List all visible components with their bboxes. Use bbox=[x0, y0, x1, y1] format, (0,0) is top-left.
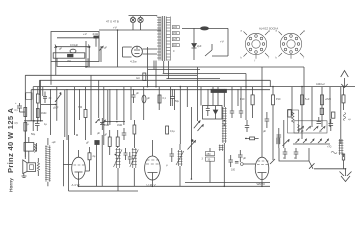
V1 cathode resistor bbox=[85, 147, 96, 171]
bus L2 y69.5 bbox=[148, 69, 200, 71]
fuse resistor 24 bbox=[83, 32, 99, 38]
dial lamp 1 bbox=[130, 16, 135, 30]
loop below mains box bbox=[57, 58, 88, 66]
diag arrow x285 bbox=[283, 139, 290, 146]
svg-text:50µ: 50µ bbox=[31, 133, 36, 136]
svg-text:+µF: +µF bbox=[52, 141, 57, 144]
svg-text:Horny: Horny bbox=[9, 178, 15, 192]
trimmer arrows osc bbox=[198, 125, 204, 132]
svg-text:+7Ω: +7Ω bbox=[327, 147, 332, 149]
svg-text:2µ: 2µ bbox=[93, 155, 96, 158]
svg-text:250: 250 bbox=[207, 153, 212, 156]
oscillator main winding bbox=[222, 89, 227, 186]
resistor x167 bbox=[166, 126, 176, 134]
junction row y120.8 bbox=[24, 120, 43, 122]
svg-text:k: k bbox=[241, 57, 243, 60]
svg-text:1µ: 1µ bbox=[26, 123, 29, 126]
winding x278 bbox=[276, 138, 281, 145]
tube socket EZ bbox=[276, 30, 306, 60]
left resistor R1 bbox=[24, 108, 27, 117]
fuse bottom right bbox=[331, 152, 345, 169]
drop from mains box left bbox=[56, 62, 89, 76]
svg-text:µF: µF bbox=[97, 132, 100, 135]
bus L6 y81.8 bbox=[40, 80, 271, 95]
primary feed wire bbox=[182, 27, 228, 29]
svg-text:µF: µF bbox=[263, 130, 266, 133]
diode on branch bbox=[192, 28, 202, 60]
resistor 5+0 bbox=[301, 95, 310, 105]
mid bottom small boxes 250 bbox=[202, 148, 215, 183]
svg-text:+V: +V bbox=[83, 32, 87, 36]
svg-text:µF: µF bbox=[147, 97, 150, 100]
rectifier tube 4Zw bbox=[130, 46, 142, 63]
small winding below osc box bbox=[219, 145, 224, 152]
svg-text:750: 750 bbox=[78, 106, 83, 109]
svg-text:0,1: 0,1 bbox=[163, 97, 167, 100]
oval cap in mains box bbox=[70, 49, 76, 53]
corner component box bbox=[26, 93, 32, 100]
svg-text:50µ: 50µ bbox=[175, 100, 180, 103]
svg-text:1MΩ: 1MΩ bbox=[41, 112, 46, 115]
left small cap bbox=[17, 103, 25, 112]
transformer taps bbox=[173, 26, 178, 53]
feedback resistor loop bbox=[288, 110, 299, 133]
bottom right wire bbox=[314, 168, 346, 170]
L1 right drop bbox=[303, 67, 305, 105]
speaker hum cap box bbox=[24, 137, 37, 163]
wire left of V1 bbox=[63, 135, 68, 191]
inner box resistor 7ohm bbox=[53, 53, 85, 63]
svg-text:µF: µF bbox=[104, 47, 107, 50]
left resistor R2 bbox=[24, 123, 27, 132]
svg-text:1MΩ: 1MΩ bbox=[104, 124, 109, 127]
mid verticals bbox=[43, 75, 108, 145]
antenna bbox=[316, 71, 348, 88]
V1 bottom lead bbox=[78, 179, 80, 186]
svg-text:0,1: 0,1 bbox=[15, 110, 19, 112]
tube V2 mixer bbox=[145, 140, 161, 187]
cap near x124 bbox=[122, 128, 127, 140]
transformer secondary top lead bbox=[156, 15, 158, 18]
transformer lead drops bbox=[148, 47, 169, 87]
caps x279 bbox=[277, 135, 282, 137]
svg-text:µ50F: µ50F bbox=[53, 107, 59, 110]
wire box right down bbox=[95, 38, 97, 47]
T1 bottom leads bbox=[118, 168, 134, 191]
tube socket AL4 bbox=[241, 30, 271, 63]
svg-text:f: f bbox=[269, 57, 270, 60]
cap right1 bbox=[317, 117, 322, 124]
bottom right box bbox=[279, 148, 309, 161]
cap 50u bbox=[31, 121, 40, 136]
main bus y86.6 bbox=[33, 87, 355, 131]
oscillator caps bbox=[230, 106, 249, 132]
bus L8 y89.3 bbox=[31, 89, 270, 91]
junction row y104.5 bbox=[41, 104, 56, 106]
rectifier wires bbox=[123, 47, 132, 57]
resistor x289 bbox=[288, 110, 291, 118]
svg-text:P10: P10 bbox=[276, 98, 281, 101]
resistor 750 bbox=[78, 87, 87, 140]
wire mains box to L1 bbox=[85, 41, 87, 67]
bus L4 y75.3 outer box top bbox=[25, 75, 197, 104]
left pair verticals bbox=[279, 120, 284, 148]
speaker bbox=[22, 160, 36, 178]
svg-text:µF: µF bbox=[86, 142, 89, 145]
fork wires bbox=[205, 44, 212, 56]
svg-text:2µF: 2µF bbox=[197, 44, 202, 48]
coil x346 bbox=[343, 113, 345, 121]
svg-text:1MΩ: 1MΩ bbox=[117, 124, 122, 127]
svg-text:µF: µF bbox=[243, 157, 246, 160]
cap below bbox=[263, 112, 269, 133]
tube V1 AF bbox=[63, 150, 85, 187]
svg-text:Prinz 40 W 125 A: Prinz 40 W 125 A bbox=[6, 107, 15, 173]
svg-text:µ: µ bbox=[166, 164, 168, 167]
bottom left corner wires bbox=[24, 131, 26, 159]
lozenge resistor on feed bbox=[201, 27, 209, 30]
vertical x51 from box bbox=[50, 62, 52, 85]
diagonal to box bbox=[270, 159, 275, 164]
T1 caps bbox=[124, 148, 132, 164]
svg-text:24Ω: 24Ω bbox=[93, 32, 99, 36]
V3 screen resistor bbox=[240, 87, 254, 118]
svg-text:µF: µF bbox=[136, 92, 139, 95]
winding x341 bbox=[339, 139, 344, 155]
resistor x273 bbox=[272, 87, 282, 160]
diode row bbox=[293, 139, 332, 149]
input cap 30 bbox=[43, 92, 52, 104]
V3 bottom lead bbox=[261, 180, 263, 187]
switch bottom right bbox=[309, 161, 315, 169]
verticals right of V1 bbox=[96, 135, 102, 186]
power transformer bbox=[157, 16, 170, 61]
bus L5 y78.6 bbox=[166, 78, 220, 80]
resistor 1M bbox=[36, 109, 46, 118]
component row under bus bbox=[132, 89, 180, 106]
svg-text:4 Zw: 4 Zw bbox=[130, 60, 137, 64]
svg-text:µF: µF bbox=[59, 47, 62, 51]
svg-text:0,5: 0,5 bbox=[15, 123, 19, 125]
svg-text:U 46 V: U 46 V bbox=[147, 183, 156, 187]
resistor x333 bbox=[332, 112, 335, 118]
cap right2 bbox=[329, 119, 334, 131]
svg-text:+: + bbox=[15, 102, 17, 105]
pot arrow 2 bbox=[194, 121, 200, 129]
field coil winding bbox=[45, 138, 56, 186]
svg-text:3: 3 bbox=[202, 158, 204, 161]
svg-text:f: f bbox=[255, 60, 256, 63]
svg-text:0: 0 bbox=[173, 50, 175, 53]
heater resistor bbox=[136, 73, 146, 81]
svg-text:4T G 4T B: 4T G 4T B bbox=[106, 20, 119, 24]
T1 second resistor bbox=[133, 120, 136, 148]
svg-text:7Ω: 7Ω bbox=[67, 59, 72, 63]
oscillator box bbox=[203, 106, 223, 120]
V2 right caps bbox=[166, 148, 174, 167]
band switch bar bbox=[211, 89, 227, 92]
svg-text:5+0: 5+0 bbox=[305, 98, 310, 101]
resistor x322 bbox=[320, 108, 323, 114]
V3 grid circle bbox=[240, 163, 243, 166]
AVC pot arrow bbox=[188, 107, 196, 179]
feed right vertical bbox=[212, 28, 228, 56]
coil zigzag in box bbox=[298, 125, 300, 132]
svg-text:+V: +V bbox=[113, 26, 117, 30]
title text bbox=[6, 107, 15, 192]
switch contact left bbox=[54, 45, 57, 48]
svg-text:+P20: +P20 bbox=[325, 98, 332, 101]
left column feed bbox=[24, 104, 26, 157]
T1 top resistor bbox=[104, 130, 111, 155]
switch contact right bbox=[88, 45, 91, 48]
bottom bus y182.5 bbox=[185, 182, 270, 184]
svg-text:100: 100 bbox=[231, 169, 236, 172]
right mid box bbox=[294, 121, 327, 133]
wire +V down bbox=[117, 30, 119, 67]
dial lamp 2 bbox=[138, 16, 143, 30]
osc bottom cap bbox=[238, 150, 246, 162]
+V bus y30 bbox=[99, 29, 161, 31]
bottom bus y186.3 bbox=[79, 185, 271, 187]
svg-text:a: a bbox=[241, 30, 243, 33]
svg-text:ϟΩ: ϟΩ bbox=[136, 76, 140, 80]
svg-text:0,1µ: 0,1µ bbox=[170, 130, 175, 133]
svg-text:4440+2: 4440+2 bbox=[316, 82, 325, 86]
V2 bottom lead bbox=[151, 180, 153, 186]
tube V3 output bbox=[255, 67, 269, 186]
caps 100 near V3 bbox=[229, 155, 239, 172]
verticals upper mid bbox=[110, 67, 246, 144]
arrows in box bbox=[299, 126, 303, 130]
right bus drops bbox=[292, 87, 341, 144]
resistor x343 bbox=[342, 87, 345, 110]
bus L3 y73.5 bbox=[163, 73, 246, 75]
bottom bus y191 bbox=[69, 190, 139, 192]
cap right of 750 bbox=[97, 118, 105, 135]
lamp top wire bbox=[129, 15, 158, 17]
svg-text:+µ: +µ bbox=[348, 119, 351, 121]
resistor to grid bbox=[245, 137, 259, 140]
diode arrow right of mains box bbox=[100, 46, 104, 50]
svg-text:+V: +V bbox=[220, 40, 224, 44]
ground arrow bbox=[340, 169, 352, 182]
svg-text:µF: µF bbox=[104, 134, 107, 137]
AF junction row bbox=[104, 121, 125, 123]
svg-text:k: k bbox=[276, 57, 278, 60]
bus L9 y91 bbox=[30, 90, 32, 121]
volume pot bbox=[55, 87, 61, 121]
resistor +P20 bbox=[321, 95, 332, 105]
coupling cap blob bbox=[86, 141, 99, 145]
V2 right winding bbox=[176, 144, 184, 186]
input grid resistor bbox=[36, 87, 39, 121]
svg-text:f: f bbox=[304, 57, 305, 60]
diode arrows mid bbox=[96, 119, 106, 124]
IF transformer T1 bbox=[114, 148, 139, 168]
svg-text:1µ: 1µ bbox=[44, 123, 47, 126]
mains input box bbox=[51, 32, 99, 62]
svg-text:0.01µF: 0.01µF bbox=[70, 43, 79, 47]
voice coil zigzag bbox=[37, 163, 39, 171]
svg-text:g: g bbox=[304, 30, 306, 33]
T1 top resistor b bbox=[115, 130, 120, 155]
long bus L1 y67 bbox=[86, 66, 304, 68]
